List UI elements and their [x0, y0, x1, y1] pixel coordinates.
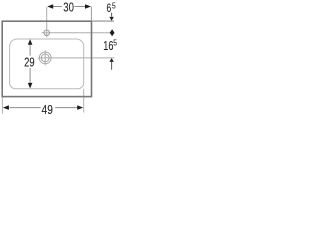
dimension 30 left arrow: [47, 4, 53, 9]
dimension 29 top arrow: [28, 39, 33, 45]
dimension 49 left arrow: [3, 105, 9, 110]
tap hole circle: [44, 30, 50, 36]
svg-text:6: 6: [107, 2, 112, 15]
bowl (inner basin rounded rectangle): [10, 39, 84, 89]
extension line right for dim 49 (bowl right edge extended): [83, 89, 85, 113]
dimension 30 right arrow: [85, 4, 91, 9]
dimension 49 right arrow: [77, 105, 83, 110]
ceramic outer outline: [2, 21, 91, 96]
dimension 6.5 stub and arrow: [111, 13, 113, 17]
drain inner circle: [41, 54, 49, 62]
dimension 49 line: [10, 107, 41, 109]
drain vertical centerline: [44, 50, 46, 65]
dimension 16.5 bottom arrow and stub: [109, 58, 113, 62]
tap hole vertical centerline: [46, 7, 48, 37]
svg-text:16: 16: [103, 39, 113, 53]
dimension 29 bottom arrow: [28, 83, 33, 89]
dimension 16.5 diamond arrows: [110, 29, 115, 36]
ceramic top edge extension to right: [92, 20, 114, 22]
dimension 30 line: [53, 6, 62, 8]
drain outer circle: [39, 52, 51, 64]
svg-text:5: 5: [112, 2, 116, 11]
svg-text:30: 30: [63, 1, 74, 15]
svg-text:29: 29: [24, 56, 35, 70]
tap hole horizontal centerline extending right: [42, 32, 115, 34]
dimension 29 line: [29, 44, 31, 56]
svg-text:49: 49: [42, 103, 53, 117]
svg-text:5: 5: [113, 39, 117, 48]
drain horizontal centerline extending right: [38, 57, 115, 59]
extension line right for dim 30: [90, 7, 92, 21]
extension line left for dim 49: [1, 97, 3, 114]
